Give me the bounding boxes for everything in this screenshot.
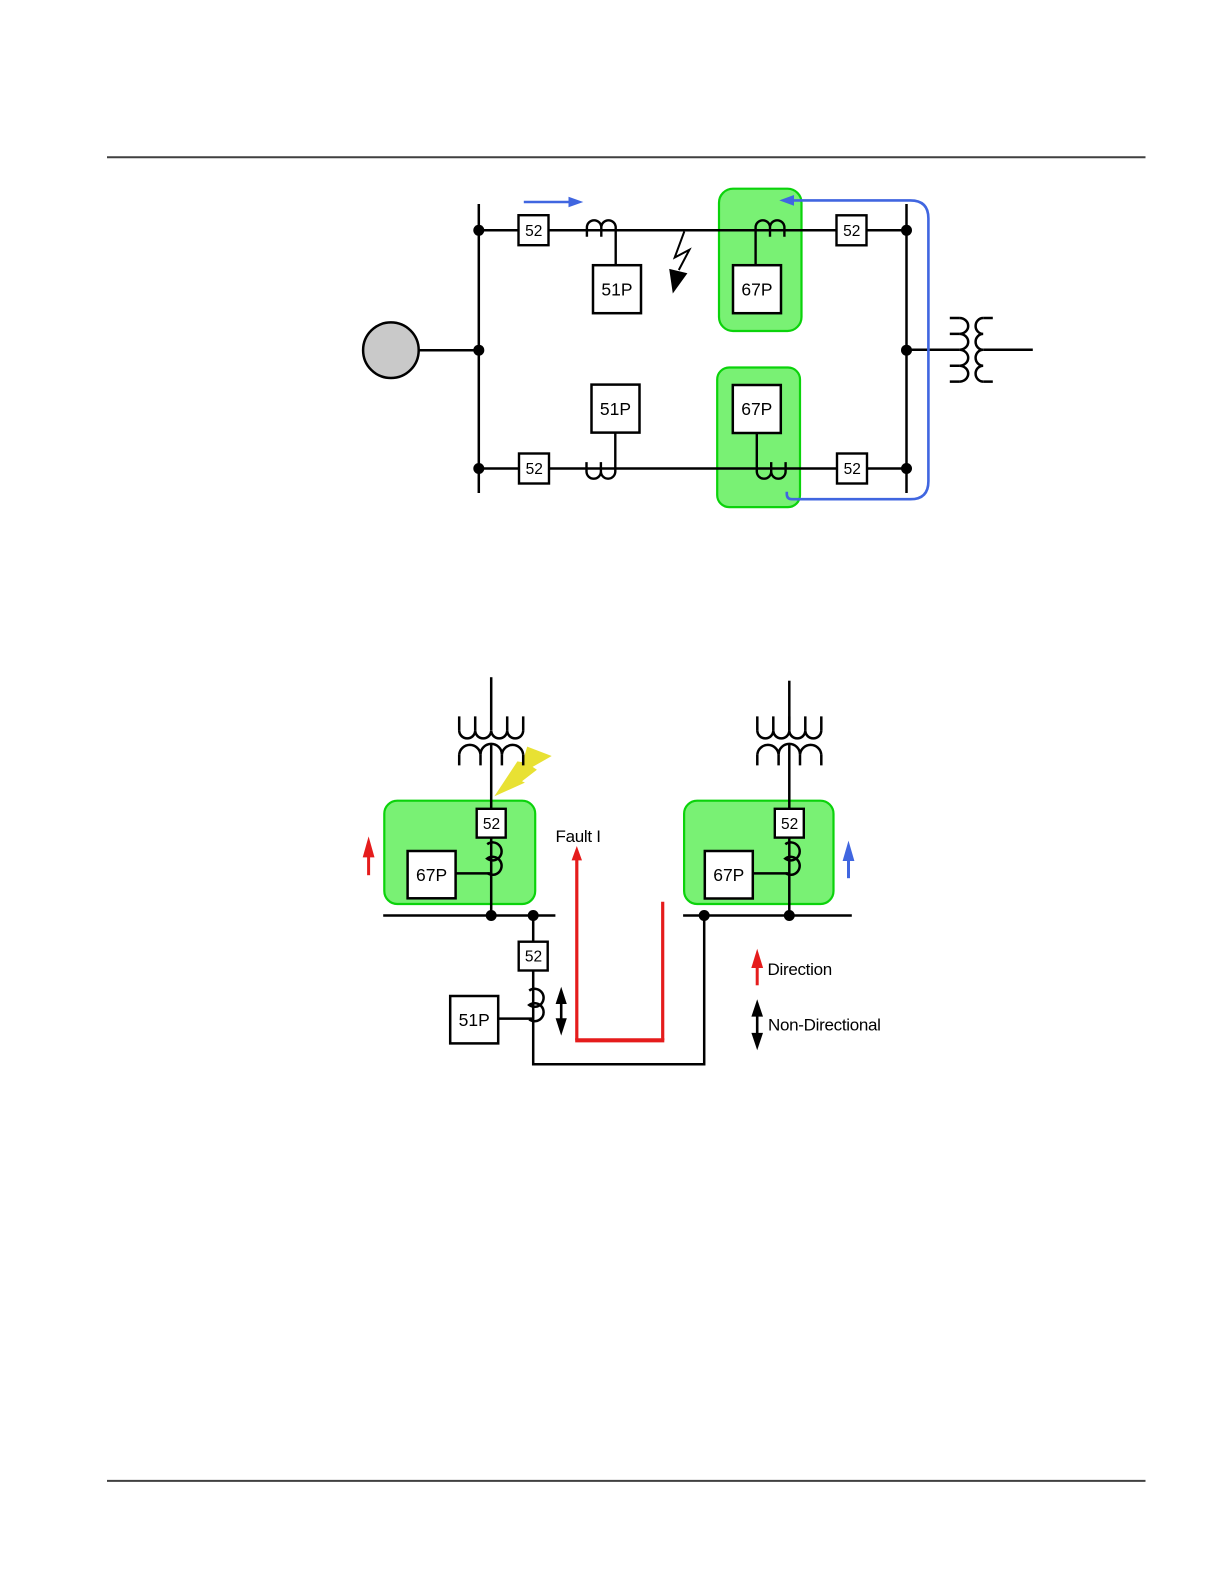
svg-text:52: 52 <box>525 223 542 240</box>
svg-text:52: 52 <box>483 816 500 833</box>
svg-text:67P: 67P <box>741 279 772 299</box>
svg-text:67P: 67P <box>416 865 447 885</box>
svg-text:52: 52 <box>844 461 861 478</box>
svg-text:Direction: Direction <box>768 960 832 979</box>
svg-text:52: 52 <box>526 461 543 478</box>
svg-text:51P: 51P <box>459 1010 490 1030</box>
svg-text:51P: 51P <box>601 279 632 299</box>
svg-text:52: 52 <box>781 816 798 833</box>
svg-text:67P: 67P <box>713 865 744 885</box>
svg-text:67P: 67P <box>741 399 772 419</box>
svg-text:51P: 51P <box>600 399 631 419</box>
svg-text:52: 52 <box>843 223 860 240</box>
svg-text:Fault I: Fault I <box>556 827 601 846</box>
svg-text:Non-Directional: Non-Directional <box>768 1016 881 1035</box>
svg-text:52: 52 <box>525 949 542 966</box>
